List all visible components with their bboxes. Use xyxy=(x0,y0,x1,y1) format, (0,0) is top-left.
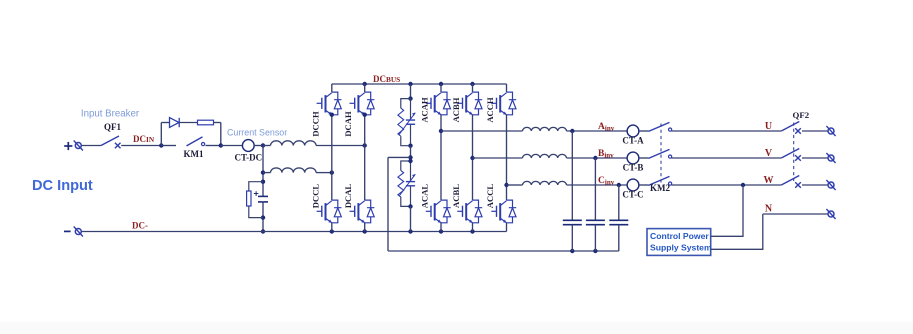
node cap B bottom xyxy=(593,249,597,253)
node cap B tap xyxy=(593,156,597,160)
wire L1 to DCA midpoint xyxy=(316,145,365,147)
svg-text:ACBL: ACBL xyxy=(451,184,461,208)
node DCCL emitter xyxy=(330,229,334,233)
wire phase A to inductor xyxy=(441,130,523,132)
current sensor CT-DC xyxy=(242,140,254,152)
node L2 tap xyxy=(261,170,265,174)
svg-text:CT-DC: CT-DC xyxy=(234,152,262,162)
node DCBUS snubber xyxy=(408,82,412,86)
contactor KM1 xyxy=(187,137,205,146)
svg-text:W: W xyxy=(764,175,774,186)
capacitor CC xyxy=(609,220,628,224)
wire cap B bottom lead xyxy=(594,225,596,251)
wire DCC collector lead xyxy=(331,84,333,92)
svg-text:QF1: QF1 xyxy=(104,122,121,132)
wire CT to KM2 xyxy=(639,157,649,159)
wire cap B lead xyxy=(594,158,596,220)
svg-text:DCBUS: DCBUS xyxy=(373,74,400,84)
transistor DCAH xyxy=(350,92,375,115)
svg-text:DC-: DC- xyxy=(132,221,148,231)
bottom artifact band xyxy=(0,322,913,334)
wire ACB collector lead xyxy=(472,84,474,92)
precharge diode xyxy=(170,118,180,128)
node snubber bottom rail xyxy=(408,229,412,233)
terminal U xyxy=(826,126,835,136)
wire DC+ to QF1 xyxy=(82,145,102,147)
wire CT to KM2 xyxy=(639,130,649,132)
wire ACB emitter lead xyxy=(472,223,474,232)
wire DCA collector lead xyxy=(364,84,366,92)
node DCAL emitter xyxy=(363,229,367,233)
contactor KM2 pole xyxy=(649,149,672,158)
svg-text:DC Input: DC Input xyxy=(32,178,93,194)
svg-text:U: U xyxy=(765,121,772,132)
transistor DCAL xyxy=(350,200,375,223)
wire QF2 to terminal xyxy=(802,130,828,132)
wire KM1 lead xyxy=(161,145,176,147)
breaker QF2 pole xyxy=(781,149,801,161)
terminal DC+ xyxy=(74,141,83,151)
wire cap C bottom lead xyxy=(618,225,620,251)
node bus midpoint xyxy=(408,155,412,159)
node snubber2 top xyxy=(408,159,412,163)
contactor KM2 pole xyxy=(649,176,672,185)
wire phase B to inductor xyxy=(473,157,523,159)
svg-text:QF2: QF2 xyxy=(792,110,809,120)
wire KM2 to QF2 xyxy=(672,157,782,159)
node ACBL emitter xyxy=(470,229,474,233)
transistor ACAL xyxy=(426,200,451,223)
wire cap gap cover xyxy=(262,197,264,201)
precharge resistor xyxy=(198,120,214,125)
svg-text:CT-A: CT-A xyxy=(622,135,644,145)
contactor KM2 pole xyxy=(649,122,672,131)
node RC top xyxy=(261,180,265,184)
wire filter cap rail xyxy=(388,250,619,252)
transistor ACCL xyxy=(491,200,516,223)
wire to L2 xyxy=(263,172,271,174)
wire cap A bottom lead xyxy=(571,225,573,251)
wire phase C to CT xyxy=(567,184,628,186)
node cap A bottom xyxy=(570,249,574,253)
wire QF2 to terminal xyxy=(802,184,828,186)
label plus xyxy=(64,142,72,150)
wire phase C to inductor xyxy=(507,184,523,186)
node control tap on W xyxy=(741,183,745,187)
snubber RC1 (resistor + capacitor) xyxy=(398,99,415,146)
node RC bottom xyxy=(261,215,265,219)
svg-text:Input Breaker: Input Breaker xyxy=(81,109,140,120)
wire input vertical xyxy=(262,146,264,232)
node phase ACB xyxy=(470,156,474,160)
node DCBUS DCA xyxy=(363,82,367,86)
node DCAH emitter xyxy=(363,113,367,117)
wire CT-DC out xyxy=(254,145,263,147)
svg-text:DCCL: DCCL xyxy=(310,184,320,209)
transistor ACAH xyxy=(426,92,451,115)
node snubber2 bottom xyxy=(408,204,412,208)
node DCBUS ACA xyxy=(439,82,443,86)
svg-text:ACBH: ACBH xyxy=(451,97,461,122)
wire DCC leg mid xyxy=(331,115,333,200)
terminal DC- xyxy=(74,227,83,237)
svg-text:CT-C: CT-C xyxy=(622,189,643,199)
wire control to N xyxy=(711,214,763,249)
wire L2 to DCC midpoint xyxy=(316,172,332,174)
wire midpoint down xyxy=(387,157,389,251)
node snubber1 top xyxy=(408,96,412,100)
node DCC midpoint xyxy=(330,170,334,174)
wire phase B to CT xyxy=(567,157,628,159)
current transformer CT-B xyxy=(627,152,639,164)
wire ACA collector lead xyxy=(440,84,442,92)
transistor DCCH xyxy=(317,92,342,115)
KM2 linkage dashed xyxy=(660,124,662,184)
svg-text:ACCL: ACCL xyxy=(485,184,495,209)
terminal N xyxy=(826,209,835,219)
wire ACA leg mid xyxy=(440,115,442,200)
wire QF2 to terminal xyxy=(802,157,828,159)
wire ACA emitter lead xyxy=(440,223,442,232)
node DC input split xyxy=(261,143,265,147)
wire ACC collector lead xyxy=(506,84,508,92)
wire KM2 to QF2 xyxy=(672,130,782,132)
transistor ACCH xyxy=(491,92,516,115)
capacitor CA xyxy=(563,220,582,224)
wire CT to KM2 xyxy=(639,184,649,186)
breaker QF2 pole xyxy=(781,122,801,134)
svg-text:DCAH: DCAH xyxy=(343,111,353,137)
resistor R-discharge xyxy=(247,191,251,206)
node on DC- rail xyxy=(261,229,265,233)
svg-text:CT-B: CT-B xyxy=(623,162,644,172)
wire to precharge diode xyxy=(161,122,169,124)
inductor L1 xyxy=(271,141,317,146)
wire ACC emitter lead xyxy=(506,223,508,232)
inductor LA xyxy=(523,127,567,131)
wire DCC emitter lead xyxy=(331,223,333,232)
wire cap A lead xyxy=(571,131,573,220)
node precharge join xyxy=(219,143,223,147)
node phase ACC xyxy=(504,183,508,187)
breaker QF1 xyxy=(101,136,121,148)
inductor LC xyxy=(523,181,567,185)
wire ACC leg mid xyxy=(506,115,508,200)
wire DCA emitter lead xyxy=(364,223,366,232)
wire diode to resistor xyxy=(179,122,197,124)
node phase ACA xyxy=(439,129,443,133)
node DCCH emitter xyxy=(330,113,334,117)
wire QF1 to KM1 xyxy=(121,145,161,147)
svg-text:ACCH: ACCH xyxy=(485,97,495,123)
terminal V xyxy=(826,153,835,163)
svg-text:Binv: Binv xyxy=(598,149,614,160)
node ACAL emitter xyxy=(439,229,443,233)
wire ACB leg mid xyxy=(472,115,474,200)
svg-text:DCCH: DCCH xyxy=(310,111,320,137)
label minus xyxy=(64,230,71,232)
wire DCA leg mid xyxy=(364,115,366,200)
wire DC- rail xyxy=(82,231,507,233)
node snubber1 bottom xyxy=(408,144,412,148)
inductor L2 xyxy=(271,168,317,173)
wire to CT-DC xyxy=(221,145,243,147)
node cap C tap xyxy=(617,183,621,187)
wire snubber top lead xyxy=(410,84,412,99)
transistor ACBH xyxy=(457,92,482,115)
svg-text:Ainv: Ainv xyxy=(598,122,615,133)
control power supply box xyxy=(647,229,711,256)
wire N line xyxy=(763,213,828,215)
svg-text:DCAL: DCAL xyxy=(343,184,353,209)
wire midpoint tap xyxy=(388,156,411,158)
wire DCBUS rail xyxy=(332,83,507,85)
svg-text:ACAH: ACAH xyxy=(420,97,430,123)
svg-text:N: N xyxy=(765,204,773,215)
wire resistor out xyxy=(214,122,221,124)
wire KM2 to QF2 xyxy=(672,184,782,186)
svg-text:ACAL: ACAL xyxy=(420,184,430,209)
wire to L1 xyxy=(263,145,271,147)
svg-text:Cinv: Cinv xyxy=(598,176,615,187)
wire RC loop xyxy=(249,182,263,218)
svg-text:KM2: KM2 xyxy=(650,183,670,193)
wire snubber mid xyxy=(410,146,412,161)
wire snubber bottom lead xyxy=(410,206,412,231)
transistor DCCL xyxy=(317,200,342,223)
transistor ACBL xyxy=(457,200,482,223)
svg-text:KM1: KM1 xyxy=(184,149,204,159)
node cap A tap xyxy=(570,129,574,133)
svg-text:Current Sensor: Current Sensor xyxy=(227,128,287,138)
wire cap C lead xyxy=(618,185,620,220)
wire phase A to CT xyxy=(567,130,628,132)
node DCA midpoint xyxy=(363,143,367,147)
wire control to W xyxy=(711,185,743,236)
wire precharge down xyxy=(220,123,222,146)
node DCIN xyxy=(159,143,163,147)
capacitor CB xyxy=(586,220,605,224)
current transformer CT-C xyxy=(627,179,639,191)
inductor LB xyxy=(523,154,567,158)
wire KM1 out xyxy=(206,145,221,147)
svg-text:V: V xyxy=(765,148,773,159)
QF2 linkage dashed xyxy=(793,123,795,182)
node DCBUS ACB xyxy=(470,82,474,86)
capacitor C-in xyxy=(258,196,268,202)
svg-text:DCIN: DCIN xyxy=(133,134,155,144)
svg-text:+: + xyxy=(254,189,259,199)
svg-text:Control PowerSupply System: Control PowerSupply System xyxy=(650,231,712,252)
wire up to precharge xyxy=(160,123,162,146)
current transformer CT-A xyxy=(627,125,639,137)
breaker QF2 pole xyxy=(781,176,801,188)
snubber RC2 (resistor + capacitor) xyxy=(398,161,415,206)
terminal W xyxy=(826,180,835,190)
